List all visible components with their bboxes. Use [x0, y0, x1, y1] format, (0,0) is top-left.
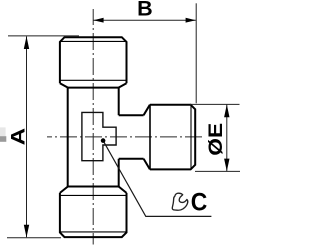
bottom nut	[60, 187, 127, 238]
dimension B extension line	[195, 3, 197, 103]
wrench icon	[172, 193, 187, 210]
dimension A extension lines	[7, 36, 79, 238]
dimension E line with arrows	[224, 105, 229, 172]
leader dot	[101, 138, 106, 143]
body block	[68, 88, 119, 187]
horizontal centerline	[47, 136, 205, 138]
svg-text:A: A	[7, 128, 29, 146]
dimension B line with arrows	[93, 18, 195, 23]
branch nut	[144, 105, 196, 170]
svg-text:ØE: ØE	[206, 123, 227, 156]
grey watermark block left edge	[0, 127, 6, 141]
leader line C	[103, 141, 211, 217]
top nut	[60, 37, 127, 87]
dimension A line with arrows	[24, 36, 29, 237]
branch tube	[119, 115, 144, 159]
internal T bore	[82, 112, 116, 160]
svg-text:B: B	[137, 0, 153, 21]
vertical centerline	[92, 9, 94, 245]
dimension E extension lines	[190, 104, 240, 171]
svg-text:C: C	[191, 188, 208, 216]
